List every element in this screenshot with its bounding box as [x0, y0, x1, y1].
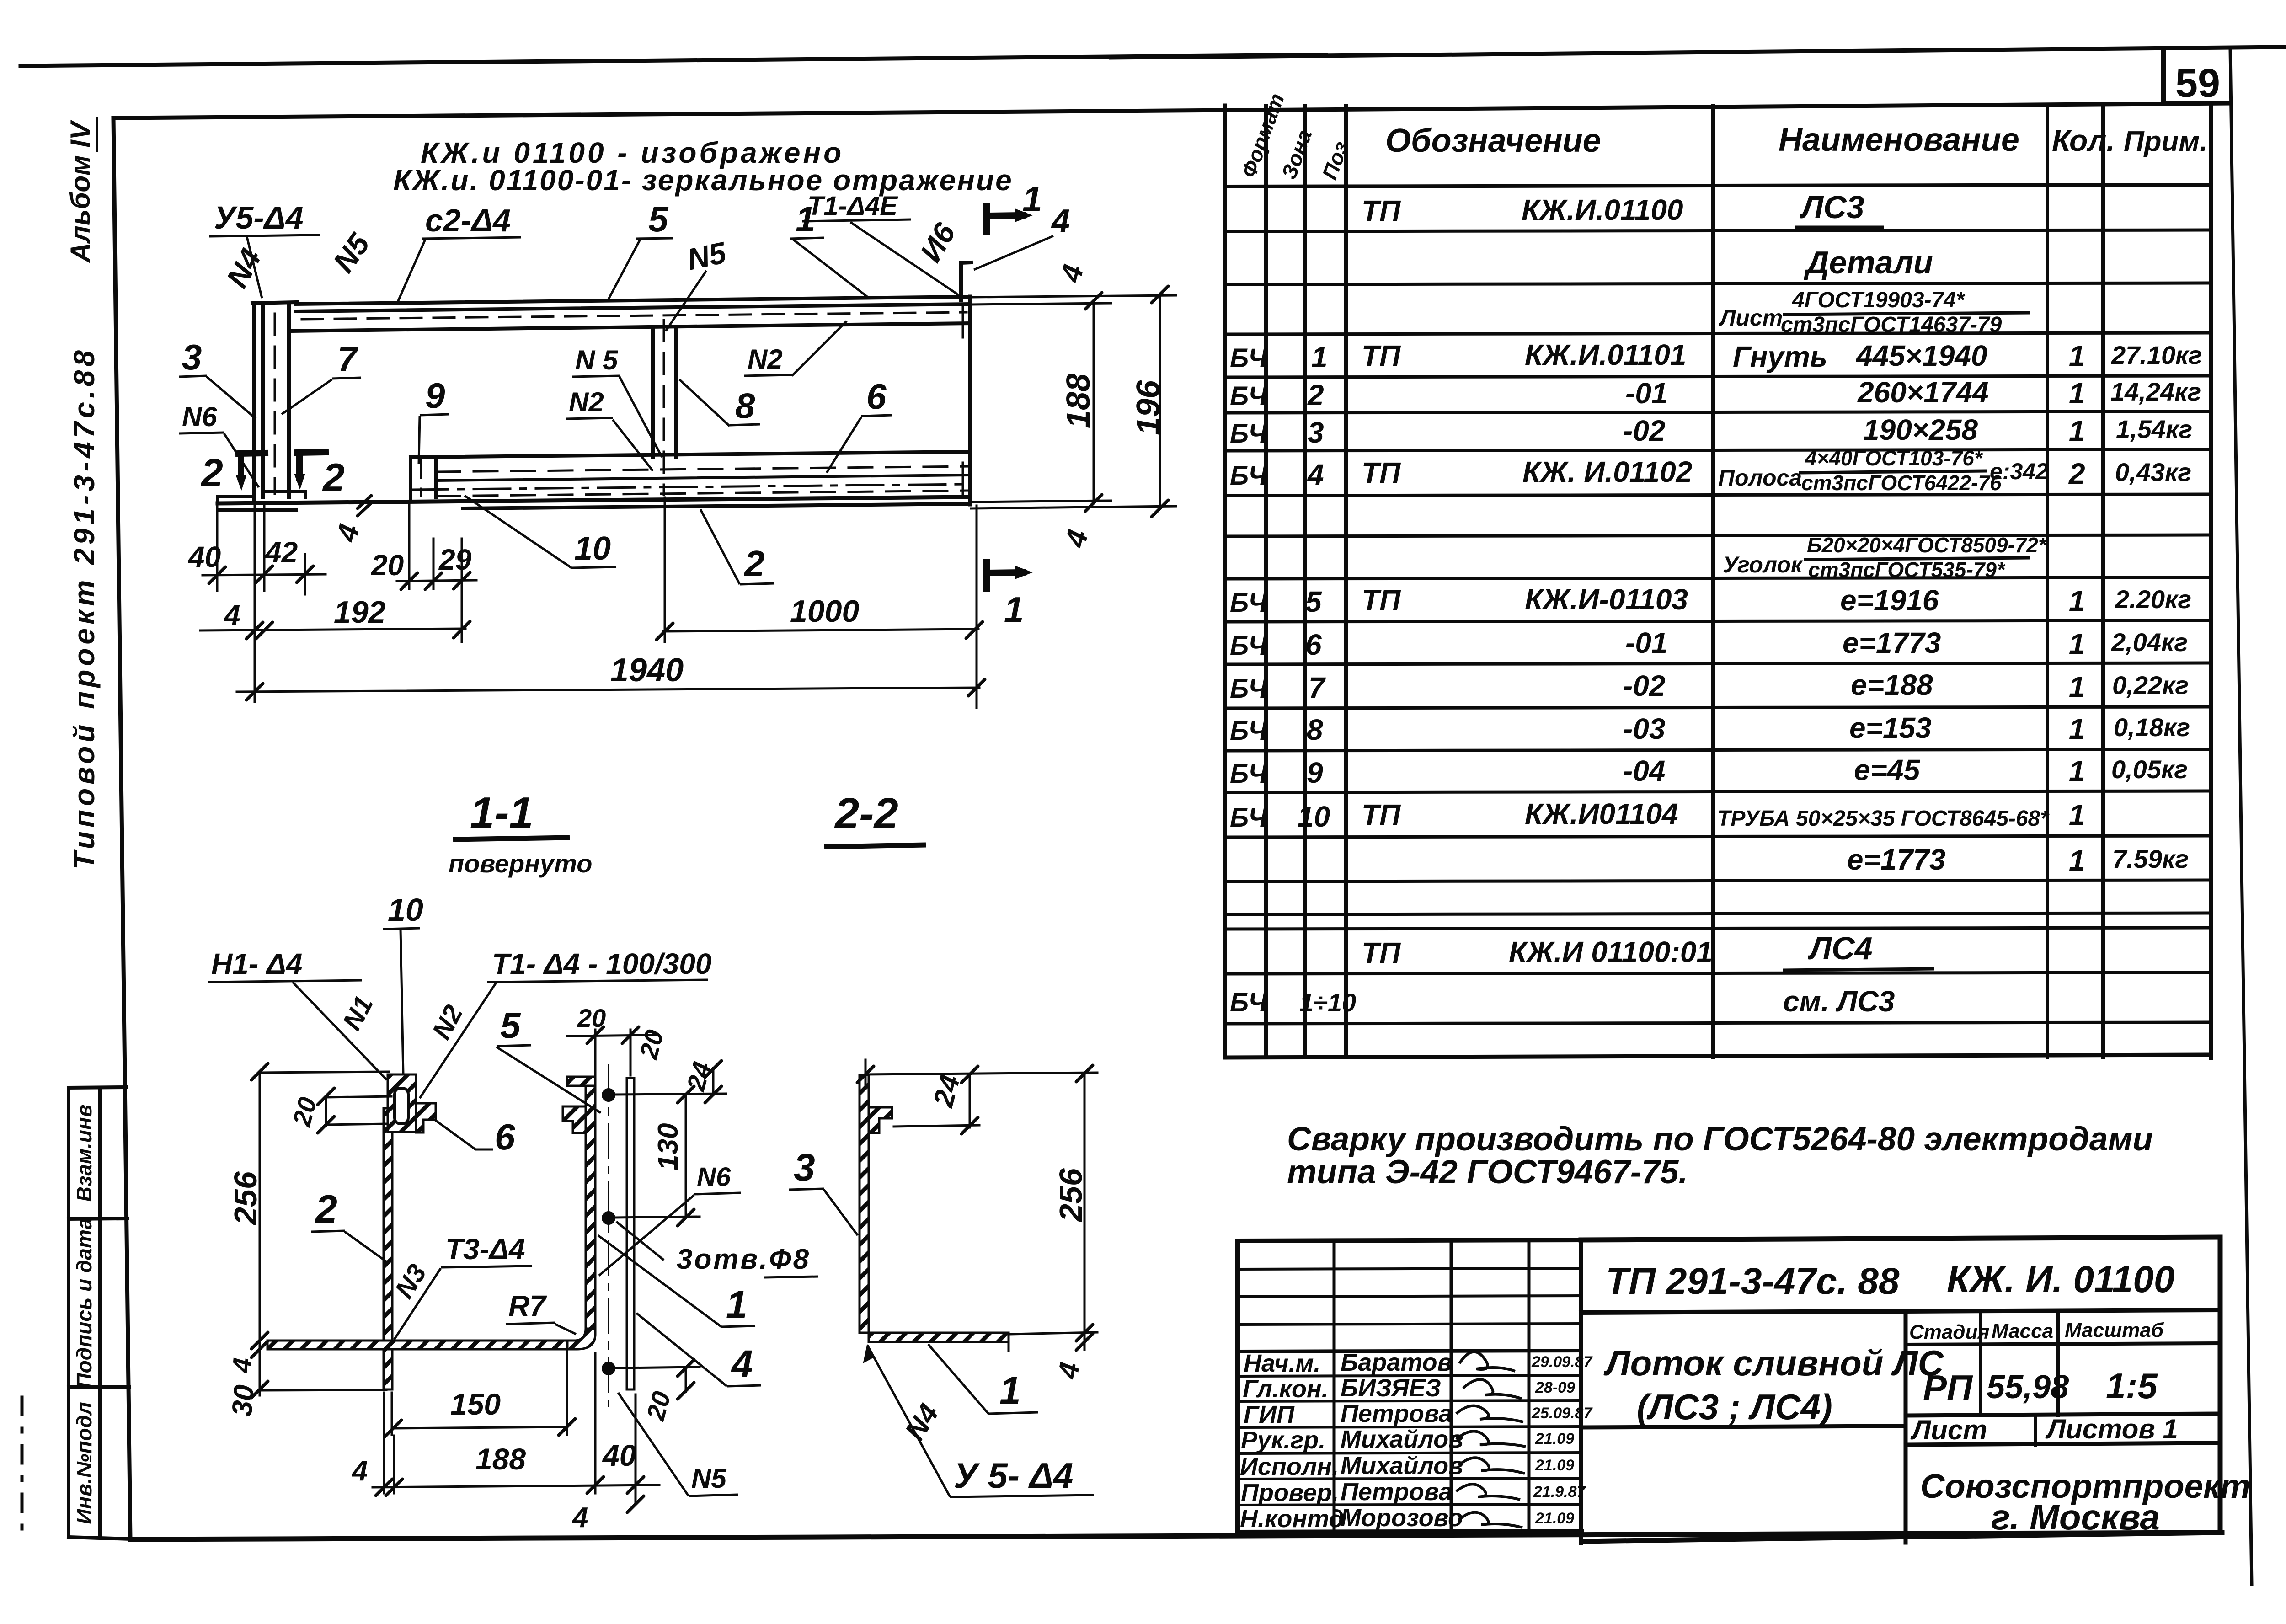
svg-text:4×40ГОСТ103-76*: 4×40ГОСТ103-76* [1805, 446, 1983, 470]
svg-text:4: 4 [351, 1455, 368, 1487]
svg-text:192: 192 [334, 595, 386, 630]
svg-text:e:342: e:342 [1990, 459, 2048, 484]
svg-text:150: 150 [450, 1387, 501, 1421]
s11 left wall pos2 [384, 1108, 392, 1389]
svg-text:Стадия: Стадия [1909, 1321, 1989, 1343]
s11 ticks [251, 1027, 721, 1512]
spec table outer [1223, 106, 1227, 1058]
svg-text:Н1- Δ4: Н1- Δ4 [211, 947, 302, 980]
svg-text:КЖ.И01104: КЖ.И01104 [1525, 797, 1678, 830]
right end edge [968, 297, 972, 504]
svg-text:Взам.инв: Взам.инв [72, 1105, 96, 1202]
svg-text:КЖ.И.01100: КЖ.И.01100 [1522, 193, 1683, 226]
svg-text:БЧ: БЧ [1230, 988, 1268, 1017]
dim line 40-42 [203, 574, 326, 575]
svg-text:-03: -03 [1623, 712, 1666, 745]
svg-text:Провер.: Провер. [1241, 1479, 1339, 1506]
svg-text:6: 6 [866, 376, 887, 417]
svg-text:БЧ: БЧ [1230, 588, 1268, 618]
svg-text:256: 256 [228, 1171, 263, 1226]
svg-text:БЧ: БЧ [1230, 631, 1268, 661]
svg-text:29.09.87: 29.09.87 [1531, 1353, 1593, 1371]
svg-text:196: 196 [1130, 380, 1167, 435]
svg-text:Б20×20×4ГОСТ8509-72*: Б20×20×4ГОСТ8509-72* [1807, 533, 2047, 557]
svg-text:1: 1 [726, 1283, 748, 1326]
s11 centerline [608, 1065, 609, 1406]
main view dimension texts [187, 261, 1167, 689]
svg-text:256: 256 [1053, 1168, 1089, 1223]
svg-text:6: 6 [495, 1116, 515, 1157]
svg-text:10: 10 [574, 530, 611, 567]
svg-text:4: 4 [1051, 203, 1070, 240]
svg-text:2: 2 [1307, 379, 1324, 411]
signature table rows [1238, 1268, 1581, 1269]
welding note [1287, 1121, 2153, 1191]
svg-text:9: 9 [1307, 756, 1323, 789]
svg-text:ТП: ТП [1362, 456, 1401, 489]
svg-text:ТРУБА 50×25×35 ГОСТ8645-68*: ТРУБА 50×25×35 ГОСТ8645-68* [1717, 807, 2050, 831]
paper cut dash mark [21, 1397, 24, 1536]
svg-text:У5-Δ4: У5-Δ4 [214, 200, 304, 235]
svg-text:59: 59 [2175, 60, 2220, 106]
svg-text:29: 29 [438, 543, 472, 576]
svg-text:0,18кг: 0,18кг [2114, 713, 2190, 742]
svg-text:2: 2 [2068, 457, 2085, 490]
svg-text:-01: -01 [1625, 377, 1668, 410]
shelf left block pos9 [409, 457, 412, 498]
svg-text:e=1773: e=1773 [1843, 626, 1941, 659]
svg-text:6: 6 [1305, 628, 1322, 661]
dim line 1000 [663, 629, 978, 631]
svg-text:Подпись и дата: Подпись и дата [72, 1218, 96, 1389]
svg-text:Альбом IV: Альбом IV [65, 119, 96, 263]
extension lines bottom-left [216, 505, 219, 591]
svg-text:КЖ.И 01100:01: КЖ.И 01100:01 [1509, 935, 1713, 968]
section cut flags [236, 206, 1031, 589]
svg-text:3отв.Ф8: 3отв.Ф8 [677, 1244, 811, 1275]
shelf hidden line 2 [436, 491, 968, 496]
left foot plate [218, 495, 254, 498]
right extension lines [971, 295, 1176, 297]
svg-text:10: 10 [1298, 800, 1330, 833]
svg-text:ст3псГОСТ535-79*: ст3псГОСТ535-79* [1808, 558, 2006, 582]
svg-text:ст3псГОСТ6422-76: ст3псГОСТ6422-76 [1801, 471, 2002, 495]
svg-text:190×258: 190×258 [1863, 413, 1978, 446]
s11 elbow R7 [567, 1329, 595, 1349]
svg-text:e=45: e=45 [1854, 753, 1921, 786]
svg-text:9: 9 [425, 375, 445, 416]
svg-text:Рук.гр.: Рук.гр. [1241, 1426, 1325, 1454]
svg-text:с2-Δ4: с2-Δ4 [425, 203, 511, 238]
svg-text:БЧ: БЧ [1230, 343, 1268, 373]
svg-text:8: 8 [1307, 713, 1323, 746]
svg-text:Михайлов: Михайлов [1341, 1452, 1463, 1480]
svg-text:28-09: 28-09 [1535, 1379, 1575, 1396]
svg-text:0,22кг: 0,22кг [2112, 671, 2189, 700]
svg-text:КЖ.и. 01100-01- зеркальное от: КЖ.и. 01100-01- зеркальное отражение [393, 164, 1013, 197]
svg-text:Морозово: Морозово [1341, 1504, 1463, 1532]
s11 leader lines [208, 928, 818, 1496]
svg-text:1: 1 [2069, 584, 2085, 617]
middle stiffener pos8 [651, 330, 655, 457]
s22 bottom plate pos1 [869, 1333, 1009, 1342]
svg-text:У 5- Δ4: У 5- Δ4 [954, 1455, 1073, 1496]
svg-text:ТП 291-3-47с. 88: ТП 291-3-47с. 88 [1606, 1261, 1900, 1302]
svg-text:БЧ: БЧ [1230, 803, 1268, 833]
title block: signature section outer [1235, 1241, 1240, 1532]
svg-text:БЧ: БЧ [1230, 419, 1268, 449]
s11 bolts [602, 1088, 615, 1102]
svg-text:1: 1 [2069, 754, 2085, 787]
svg-text:БИЗЯЕЗ: БИЗЯЕЗ [1341, 1374, 1441, 1402]
svg-text:ТП: ТП [1362, 584, 1401, 617]
svg-text:3: 3 [794, 1146, 815, 1189]
svg-text:Кол.: Кол. [2052, 123, 2115, 157]
top edge rule [21, 55, 1326, 66]
svg-text:0,43кг: 0,43кг [2115, 458, 2191, 486]
album IV underline [96, 117, 98, 152]
s11 bottom plate [267, 1341, 567, 1349]
s11 labels [211, 892, 811, 1494]
signature table verticals [1333, 1240, 1336, 1532]
svg-text:Сварку производить по ГОСТ5: Сварку производить по ГОСТ5264-80 электр… [1287, 1121, 2153, 1158]
spec table row lines [1225, 230, 2211, 231]
svg-text:1940: 1940 [610, 652, 684, 689]
spec table body texts [1230, 189, 2202, 1018]
s22 left wall pos3 [860, 1075, 869, 1333]
svg-text:ТП: ТП [1362, 798, 1401, 831]
svg-text:ТП: ТП [1362, 936, 1401, 969]
svg-text:БЧ: БЧ [1230, 381, 1268, 411]
svg-text:21.09: 21.09 [1535, 1430, 1574, 1448]
s11 right wall top flange [567, 1077, 595, 1086]
s22 top flange [869, 1107, 892, 1133]
svg-text:1: 1 [2069, 339, 2085, 372]
svg-text:-02: -02 [1623, 669, 1666, 702]
s11 right wall pos1 [586, 1078, 595, 1329]
svg-text:-04: -04 [1623, 754, 1666, 787]
svg-text:Масса: Масса [1992, 1320, 2053, 1342]
svg-text:КЖ.И-01103: КЖ.И-01103 [1525, 583, 1688, 616]
svg-text:1: 1 [2069, 670, 2085, 703]
svg-text:5: 5 [1305, 585, 1322, 618]
svg-text:40: 40 [187, 540, 221, 573]
svg-text:1000: 1000 [790, 594, 859, 629]
svg-text:R7: R7 [508, 1289, 547, 1322]
main view header note [393, 136, 1013, 197]
svg-text:e=1773: e=1773 [1847, 843, 1945, 876]
svg-text:КЖ. И.01102: КЖ. И.01102 [1522, 455, 1692, 488]
main view leader labels [182, 179, 1070, 630]
svg-text:БЧ: БЧ [1230, 674, 1268, 704]
svg-text:7.59кг: 7.59кг [2112, 844, 2189, 873]
bottom edge line [218, 497, 970, 503]
svg-text:1: 1 [1004, 589, 1024, 630]
svg-text:см. ЛС3: см. ЛС3 [1783, 985, 1895, 1018]
svg-text:Баратов: Баратов [1341, 1349, 1452, 1376]
svg-text:188: 188 [475, 1442, 526, 1476]
svg-text:КЖ.И.01101: КЖ.И.01101 [1525, 338, 1687, 371]
svg-text:Лист: Лист [1910, 1415, 1987, 1445]
shelf top line [411, 452, 970, 457]
svg-text:2: 2 [200, 451, 223, 495]
dim line 196 vertical [1159, 294, 1161, 508]
svg-text:N 5: N 5 [575, 345, 619, 375]
svg-text:1: 1 [1311, 341, 1328, 374]
page number box [2161, 49, 2166, 103]
sheet frame [113, 103, 2231, 118]
svg-text:г. Москва: г. Москва [1991, 1497, 2160, 1537]
left post bottom flange [263, 490, 305, 493]
top chord hidden dashed line [302, 312, 967, 319]
spec table header bottom [1225, 185, 2211, 187]
svg-text:1:5: 1:5 [2106, 1366, 2158, 1406]
svg-text:повернуто: повернуто [449, 849, 592, 878]
svg-text:1-1: 1-1 [470, 788, 534, 837]
shelf hidden line 1 [436, 466, 968, 472]
svg-text:Петрова: Петрова [1341, 1400, 1453, 1427]
top chord bottom line [289, 323, 970, 331]
left margin vertical texts [65, 119, 101, 1524]
signature scribbles [1456, 1352, 1526, 1528]
svg-text:1,54кг: 1,54кг [2116, 415, 2192, 443]
svg-text:Петрова: Петрова [1341, 1478, 1453, 1506]
right top tab pos4 [959, 263, 963, 300]
svg-text:7: 7 [337, 339, 359, 379]
svg-text:ЛС3: ЛС3 [1799, 189, 1864, 225]
svg-text:8: 8 [735, 385, 755, 426]
svg-text:Уголок: Уголок [1723, 552, 1804, 577]
s11 dim extension lines [615, 1094, 726, 1095]
svg-text:7: 7 [1309, 671, 1326, 704]
svg-text:N2: N2 [748, 344, 783, 374]
signature table texts [1240, 1349, 1463, 1533]
svg-text:Т1- Δ4 - 100/300: Т1- Δ4 - 100/300 [492, 947, 712, 980]
svg-text:55,98: 55,98 [1987, 1369, 2069, 1405]
svg-text:1: 1 [2069, 798, 2085, 831]
svg-text:БЧ: БЧ [1230, 461, 1268, 491]
s11 tube slot [395, 1088, 408, 1124]
svg-text:БЧ: БЧ [1230, 716, 1268, 746]
svg-text:Масштаб: Масштаб [2065, 1319, 2164, 1341]
title block right section outer [1581, 1237, 2220, 1240]
svg-text:1: 1 [2069, 844, 2085, 877]
s22 dims [865, 1060, 867, 1088]
svg-text:2: 2 [743, 543, 765, 584]
svg-text:2.20кг: 2.20кг [2115, 585, 2191, 614]
svg-text:Нач.м.: Нач.м. [1244, 1350, 1320, 1377]
svg-text:(ЛС3 ; ЛС4): (ЛС3 ; ЛС4) [1637, 1387, 1832, 1427]
svg-text:Полоса: Полоса [1718, 465, 1802, 491]
MAIN VIEW [218, 262, 971, 510]
svg-text:40: 40 [602, 1438, 636, 1472]
svg-text:Листов 1: Листов 1 [2045, 1414, 2178, 1444]
svg-text:4ГОСТ19903-74*: 4ГОСТ19903-74* [1792, 288, 1966, 312]
svg-text:1: 1 [2069, 712, 2085, 745]
left post right edge [287, 303, 291, 497]
s11 weld hook pos5 [563, 1106, 586, 1133]
svg-text:4: 4 [571, 1502, 588, 1533]
svg-text:ст3псГОСТ14637-79: ст3псГОСТ14637-79 [1781, 313, 2002, 337]
svg-text:N6: N6 [697, 1162, 731, 1192]
title block inner lines [1581, 1310, 2220, 1313]
svg-text:4: 4 [1307, 458, 1324, 491]
svg-text:2: 2 [315, 1187, 337, 1231]
svg-text:Гнуть: Гнуть [1733, 340, 1827, 373]
svg-text:Михайлов: Михайлов [1341, 1426, 1463, 1453]
shelf centerline dash-dot [411, 484, 968, 490]
svg-text:ТП: ТП [1362, 339, 1401, 372]
svg-text:Детали: Детали [1804, 245, 1933, 280]
svg-text:1: 1 [2069, 414, 2085, 447]
dim line 20-29 [397, 580, 476, 581]
main view dimensions [200, 294, 1176, 708]
svg-text:Наименование: Наименование [1779, 122, 2019, 158]
svg-text:e=188: e=188 [1851, 668, 1933, 701]
svg-text:445×1940: 445×1940 [1855, 339, 1987, 372]
svg-text:2,04кг: 2,04кг [2111, 628, 2188, 657]
svg-text:Типовой проект 291-3-47с.88: Типовой проект 291-3-47с.88 [68, 347, 101, 870]
dim line 188 vertical [1093, 301, 1095, 503]
shelf solid line [436, 475, 968, 481]
svg-text:188: 188 [1060, 374, 1097, 428]
s11 hook pos6 [416, 1103, 436, 1133]
svg-text:Обозначение: Обозначение [1385, 123, 1601, 159]
svg-text:4: 4 [223, 599, 240, 632]
underlines in table [1795, 226, 1884, 229]
svg-text:3: 3 [1308, 416, 1324, 449]
s11 bar pos4 [626, 1078, 628, 1389]
svg-text:-01: -01 [1625, 626, 1668, 659]
top cap of left post [252, 302, 297, 303]
svg-text:КЖ. И. 01100: КЖ. И. 01100 [1947, 1259, 2175, 1300]
s11 dimension texts [226, 1004, 716, 1533]
svg-text:20: 20 [577, 1004, 606, 1032]
svg-text:e=1916: e=1916 [1840, 584, 1939, 617]
svg-text:5: 5 [648, 199, 669, 239]
spec table verticals [1264, 106, 1268, 1058]
svg-text:130: 130 [652, 1123, 684, 1170]
svg-text:3: 3 [182, 337, 202, 377]
svg-text:e=153: e=153 [1849, 711, 1932, 744]
svg-text:21.09: 21.09 [1535, 1510, 1574, 1527]
svg-text:1: 1 [2069, 627, 2085, 660]
dimension ticks main view [209, 286, 1168, 700]
svg-text:260×1744: 260×1744 [1857, 376, 1989, 409]
svg-text:20: 20 [371, 549, 404, 582]
svg-text:Гл.кон.: Гл.кон. [1243, 1375, 1329, 1403]
svg-text:N5: N5 [691, 1463, 727, 1494]
svg-text:0,05кг: 0,05кг [2111, 755, 2188, 784]
svg-text:27.10кг: 27.10кг [2111, 341, 2202, 369]
svg-text:1: 1 [2069, 377, 2085, 410]
svg-text:Прим.: Прим. [2124, 126, 2207, 157]
svg-text:30: 30 [226, 1384, 261, 1418]
main view leader lines [179, 219, 1053, 584]
svg-text:21.09: 21.09 [1535, 1457, 1574, 1474]
svg-text:2-2: 2-2 [834, 789, 898, 838]
svg-text:14,24кг: 14,24кг [2110, 377, 2201, 406]
left post hidden centerline [274, 314, 276, 494]
top chord top line [296, 297, 970, 304]
svg-text:1÷10: 1÷10 [1299, 988, 1356, 1017]
svg-text:5: 5 [500, 1005, 521, 1046]
top chord second line [296, 304, 970, 311]
svg-text:Т1-Δ4Е: Т1-Δ4Е [807, 191, 898, 221]
svg-text:42: 42 [264, 536, 298, 569]
svg-text:РП: РП [1923, 1368, 1973, 1408]
svg-text:25.09.87: 25.09.87 [1531, 1405, 1593, 1422]
s11 top tube assembly pos10 [388, 1074, 416, 1132]
svg-text:1: 1 [999, 1369, 1021, 1412]
svg-text:Н.контд: Н.контд [1240, 1505, 1344, 1533]
left margin boxes [67, 1088, 70, 1538]
dim line 4-192 [200, 629, 465, 630]
svg-text:N2: N2 [569, 387, 604, 417]
title block texts [1603, 1259, 2250, 1537]
svg-text:Лоток сливной ЛС: Лоток сливной ЛС [1603, 1343, 1944, 1383]
svg-text:N6: N6 [182, 401, 217, 432]
svg-text:Лист: Лист [1719, 305, 1783, 331]
svg-text:ЛС4: ЛС4 [1807, 930, 1873, 966]
svg-text:4: 4 [731, 1342, 753, 1385]
svg-text:ТП: ТП [1362, 194, 1401, 227]
svg-text:10: 10 [388, 892, 423, 928]
svg-text:Т3-Δ4: Т3-Δ4 [445, 1233, 525, 1266]
left thin wall edge [252, 303, 256, 502]
spec table header texts [1237, 90, 2208, 182]
bottom second line [219, 510, 296, 510]
svg-text:-02: -02 [1623, 414, 1666, 447]
svg-text:Инв.№подл: Инв.№подл [72, 1402, 96, 1524]
svg-text:БЧ: БЧ [1230, 759, 1268, 789]
svg-text:21.9.87: 21.9.87 [1533, 1483, 1586, 1501]
svg-text:2: 2 [322, 456, 345, 500]
svg-text:ГИП: ГИП [1244, 1401, 1295, 1428]
svg-text:типа Э-42 ГОСТ9467-75.: типа Э-42 ГОСТ9467-75. [1287, 1154, 1688, 1191]
svg-text:Исполн.: Исполн. [1240, 1453, 1339, 1480]
right inner short lines [962, 304, 964, 337]
svg-text:4: 4 [227, 1357, 258, 1374]
dim line 1940 [237, 688, 979, 692]
